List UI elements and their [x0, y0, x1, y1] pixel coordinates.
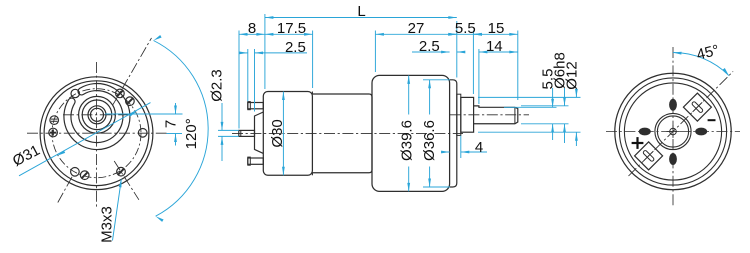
end view outer circle: [615, 73, 731, 189]
terminal tab SW (plus): [635, 142, 663, 170]
end view horizontal centerline: [606, 131, 740, 133]
gearbox housing: [372, 75, 450, 191]
gearbox flange inner ring: [44, 81, 149, 186]
extension line pin tip: [238, 31, 240, 129]
dimension O12: [575, 88, 577, 97]
bolt hole radial centerline -57.5deg: [114, 161, 139, 200]
bolt hole radial centerline 240.8deg: [58, 177, 73, 203]
vent slot south: [669, 153, 677, 165]
rear cap boss trapezoid: [255, 112, 264, 153]
dimension 8: [239, 33, 265, 35]
rear end cap O30: [263, 92, 312, 176]
terminal tab NE (minus): [683, 93, 711, 121]
shaft boss O12: [461, 97, 474, 132]
svg-text:4: 4: [475, 139, 483, 156]
dimension 5.5 (boss length): [457, 33, 474, 35]
output shaft hub: [88, 106, 106, 124]
shaft horizontal centerline: [63, 114, 131, 116]
svg-text:120°: 120°: [183, 118, 200, 149]
svg-text:5.5: 5.5: [455, 20, 476, 37]
shaft washer: [457, 94, 461, 135]
end view vertical centerline: [672, 47, 674, 207]
end view ring 2: [619, 78, 726, 185]
svg-text:7: 7: [163, 120, 180, 128]
svg-text:27: 27: [408, 20, 425, 37]
bolt circle (dash-dot): [52, 89, 141, 178]
dimension 5.5 vertical (flat): [552, 88, 554, 107]
shaft axis centerline: [450, 114, 529, 116]
center shaft circle: [670, 128, 677, 135]
M3 screw hole at 0.5deg: [138, 129, 147, 138]
leader M3x3: [113, 180, 122, 241]
svg-text:Ø39.6: Ø39.6: [398, 120, 415, 161]
svg-text:17.5: 17.5: [277, 20, 306, 37]
dimension 2.5 rear: [241, 52, 248, 54]
vent slot north: [669, 99, 677, 111]
svg-text:Ø2.3: Ø2.3: [209, 69, 226, 102]
extension line trapezoid face: [254, 49, 256, 112]
end cap boss ring: [655, 113, 691, 149]
dimension leader O31: [19, 103, 151, 176]
svg-text:Ø36.6: Ø36.6: [421, 120, 438, 161]
end view 45deg centerline: [629, 71, 734, 176]
extension lines shaft right side: [478, 96, 581, 98]
extension line boss right: [472, 31, 474, 95]
dimension O6h8: [564, 88, 566, 106]
vent slot west: [639, 128, 651, 136]
output shaft O6 with flat: [474, 106, 518, 124]
plus label: [632, 142, 644, 144]
dimension 17.5: [265, 33, 313, 35]
dimension 15: [473, 33, 517, 35]
idler pin hole in crescent gap: [71, 89, 79, 97]
dimension 7 extension lines: [105, 113, 183, 115]
svg-text:2.5: 2.5: [419, 38, 440, 55]
gearbox flange outer circle: [40, 77, 153, 190]
end view face circle: [624, 83, 721, 180]
dimension 120deg arc: [154, 41, 209, 217]
svg-text:8: 8: [248, 20, 256, 37]
M3 screw hole at 179.1deg: [49, 128, 58, 137]
svg-text:15: 15: [488, 20, 505, 37]
svg-text:L: L: [357, 3, 365, 20]
terminal bottom: [248, 158, 263, 164]
motor axis centerline: [232, 132, 463, 134]
extension line cap right: [312, 31, 314, 89]
bearing boss circle: [82, 100, 112, 130]
M3 screw hole at 254.3deg: [80, 171, 89, 180]
dimension 14: [479, 51, 518, 53]
dimension O39.6: [408, 75, 410, 114]
minus label: [708, 119, 716, 121]
dimension 7 line: [175, 103, 177, 114]
extension line flat start: [478, 49, 480, 104]
extension line terminal tip: [247, 49, 249, 101]
M3 screw hole at 59.6deg: [116, 89, 125, 98]
M3 screw hole at 240.8deg: [71, 168, 80, 177]
dimension 2.5 front (ring): [412, 51, 450, 53]
terminal top: [248, 103, 263, 109]
vent slot east: [695, 128, 707, 136]
dimension O2.3 (pin): [218, 129, 239, 131]
svg-text:Ø30: Ø30: [269, 119, 286, 147]
M3 screw hole at 43.8deg: [126, 97, 135, 106]
svg-text:2.5: 2.5: [285, 39, 306, 56]
rear bearing pin: [239, 130, 255, 136]
M3 screw hole at 162.8deg: [50, 116, 59, 125]
output shaft bore: [91, 108, 104, 121]
extension line shaft end: [517, 31, 519, 101]
svg-text:14: 14: [486, 38, 503, 55]
motor can: [312, 94, 372, 173]
M3 screw hole at -57.5deg: [117, 167, 126, 176]
extension line gearbox left: [374, 31, 376, 73]
bolt hole radial centerline 60deg: [113, 38, 152, 105]
dimension 4 (boss offset): [460, 136, 462, 158]
flange horizontal centerline: [27, 132, 167, 134]
crescent ring gear opening: [64, 84, 130, 150]
dimension O36.6: [423, 79, 450, 81]
svg-text:Ø12: Ø12: [564, 61, 581, 89]
dimension O30: [282, 92, 284, 176]
dimension 45deg arc: [673, 52, 729, 75]
dimension 27: [375, 33, 456, 35]
flange vertical centerline: [96, 62, 98, 208]
dimension L: [264, 14, 266, 89]
gearbox end ring O36.6: [450, 80, 457, 187]
bearing boss outer circle: [79, 96, 116, 133]
